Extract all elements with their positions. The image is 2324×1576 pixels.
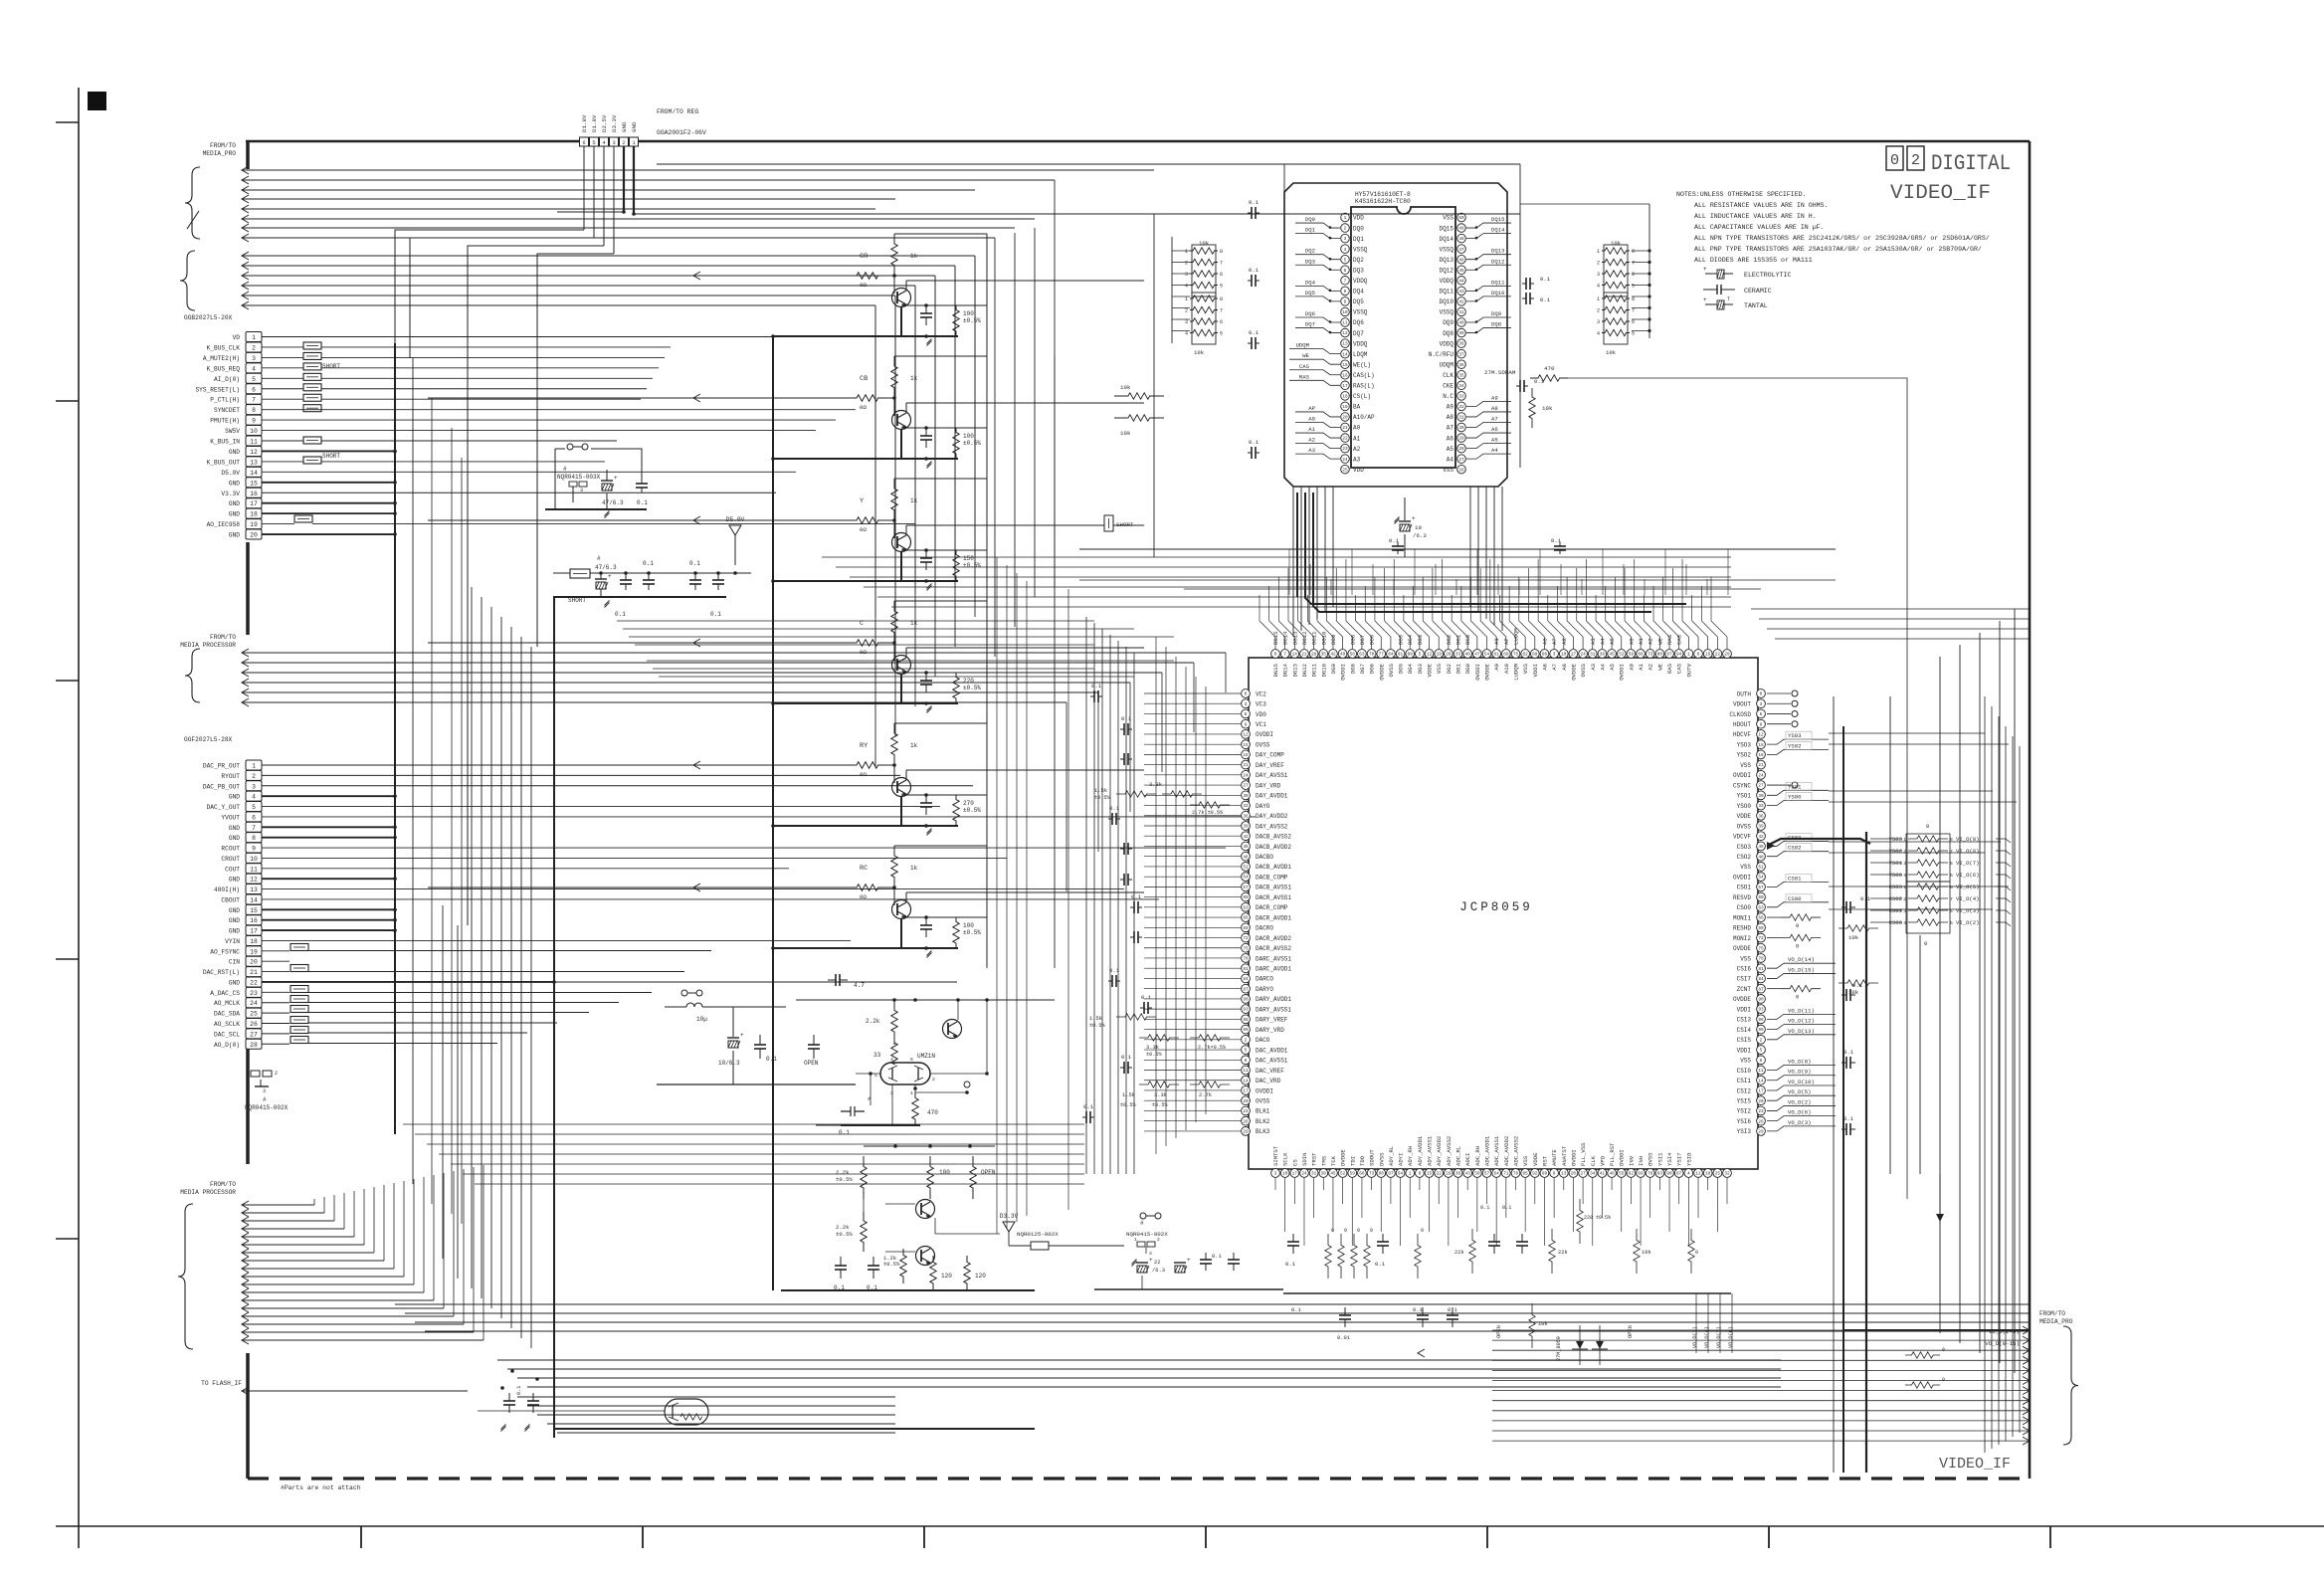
IC U-SDRAM pin 3 DQ1 bbox=[1341, 234, 1350, 243]
IC U1 left pin 40 OVDDI bbox=[1242, 1086, 1251, 1095]
svg-text:2.7k×0.5%: 2.7k×0.5% bbox=[1198, 1045, 1227, 1051]
svg-text:NOTES:UNLESS OTHERWISE SPECIFI: NOTES:UNLESS OTHERWISE SPECIFIED. bbox=[1676, 191, 1807, 198]
wire media_processor bot 10 bbox=[242, 1273, 249, 1280]
IC U1 top pin 17 bbox=[1425, 650, 1434, 659]
svg-text:6: 6 bbox=[1245, 712, 1248, 717]
svg-text:YS02: YS02 bbox=[1788, 742, 1801, 749]
U1 right no-connect stubs bbox=[1767, 692, 1791, 694]
svg-text:OVDDI: OVDDI bbox=[1340, 664, 1347, 681]
svg-text:8: 8 bbox=[1245, 1059, 1248, 1064]
svg-text:DARY_AVDD1: DARY_AVDD1 bbox=[1256, 996, 1291, 1003]
svg-text:DAC_Y_OUT: DAC_Y_OUT bbox=[207, 804, 241, 811]
wire bus verticals into u1 top bbox=[1288, 549, 1290, 595]
bottom ruler line bbox=[56, 1525, 2324, 1527]
svg-text:V3.3V: V3.3V bbox=[221, 491, 240, 497]
capacitor 0.1 a bbox=[625, 574, 627, 580]
svg-text:DG15: DG15 bbox=[1272, 664, 1279, 677]
IC U1 right pin 16 CSO3 bbox=[1757, 842, 1766, 851]
connector CN-A pin 10 SW5V bbox=[246, 426, 262, 436]
svg-text:120: 120 bbox=[941, 1273, 952, 1280]
svg-text:VO_D(13): VO_D(13) bbox=[1788, 1028, 1815, 1035]
svg-text:14: 14 bbox=[1342, 352, 1348, 357]
svg-text:MONI2: MONI2 bbox=[1733, 935, 1751, 942]
capacitor 0.1 u1left j bbox=[1140, 1007, 1144, 1009]
left ruler tick 1 bbox=[56, 121, 79, 123]
stage RC top rail wire bbox=[894, 845, 987, 847]
IC U1 bottom pin 41 bbox=[1655, 1169, 1664, 1178]
svg-text:ALL CAPACITANCE VALUES ARE IN: ALL CAPACITANCE VALUES ARE IN µF. bbox=[1694, 224, 1825, 231]
svg-text:DQ11: DQ11 bbox=[1440, 289, 1454, 295]
svg-text:8: 8 bbox=[1344, 290, 1347, 295]
connector CN-B pin 19 AO_FSYNC bbox=[246, 946, 262, 956]
wire Y emitter bbox=[900, 551, 902, 581]
svg-text:24: 24 bbox=[1301, 1172, 1307, 1177]
svg-text:6: 6 bbox=[1220, 319, 1223, 325]
svg-text:DQ7: DQ7 bbox=[1353, 330, 1364, 337]
svg-text:VDD: VDD bbox=[1353, 467, 1364, 474]
IC U1 left pin 42 BLK1 bbox=[1242, 1106, 1251, 1115]
svg-text:ADY_AVDD1: ADY_AVDD1 bbox=[1417, 1135, 1424, 1166]
wire media_processor bot 18 bbox=[242, 1336, 249, 1344]
svg-text:0.1: 0.1 bbox=[689, 560, 700, 567]
svg-text:22: 22 bbox=[1437, 1172, 1443, 1177]
svg-text:1.5k: 1.5k bbox=[1089, 1016, 1102, 1022]
svg-text:26: 26 bbox=[250, 1021, 258, 1028]
IC U1 right pin 34 CSI4 bbox=[1757, 1025, 1766, 1034]
svg-text:0.1: 0.1 bbox=[766, 1056, 777, 1063]
bottom ruler tick 4 bbox=[1205, 1526, 1207, 1548]
resistor 10k bottom2 bbox=[1529, 1303, 1535, 1348]
wire media_processor mid 2 bbox=[242, 659, 249, 667]
svg-text:COUT: COUT bbox=[225, 866, 240, 873]
svg-text:21: 21 bbox=[1243, 763, 1249, 768]
connector CN-B pin 26 AO_SCLK bbox=[246, 1019, 262, 1029]
svg-text:10k: 10k bbox=[1542, 405, 1553, 412]
svg-text:64: 64 bbox=[1494, 1172, 1500, 1177]
connector CN-B pin 1 DAC_PR_OUT bbox=[246, 760, 262, 770]
svg-text:CS01: CS01 bbox=[1788, 875, 1802, 882]
svg-text:BLK2: BLK2 bbox=[1256, 1118, 1270, 1125]
svg-text:97: 97 bbox=[1676, 1172, 1682, 1177]
svg-text:99: 99 bbox=[1542, 1172, 1548, 1177]
IC U1 right pin 41 YSIS bbox=[1757, 1096, 1766, 1105]
net label VO_D(11) bbox=[1767, 1014, 1836, 1019]
wire crystal ground rail bbox=[841, 1124, 920, 1126]
svg-text:75: 75 bbox=[1758, 946, 1764, 951]
svg-text:7: 7 bbox=[1220, 261, 1223, 267]
svg-text:GND: GND bbox=[229, 979, 240, 986]
IC U-SDRAM pin 40 DQ9 bbox=[1457, 318, 1466, 327]
svg-text:GND: GND bbox=[229, 532, 240, 539]
svg-text:DACRO: DACRO bbox=[1256, 925, 1273, 932]
page frame registration square bbox=[88, 92, 106, 110]
svg-text:DQ6: DQ6 bbox=[1305, 310, 1315, 317]
svg-text:14: 14 bbox=[250, 470, 258, 477]
svg-text:61: 61 bbox=[1494, 653, 1500, 658]
svg-text:84: 84 bbox=[1388, 653, 1394, 658]
svg-text:2: 2 bbox=[275, 1071, 278, 1077]
IC U1 right pin 22 CSO0 bbox=[1757, 902, 1766, 911]
capacitor 0.1 u1left d bbox=[1108, 818, 1112, 820]
IC U-SDRAM pin 49 DQ15 bbox=[1457, 224, 1466, 233]
svg-text:6: 6 bbox=[1344, 269, 1347, 274]
svg-text:DG10: DG10 bbox=[1320, 631, 1327, 645]
wire low cluster ground bbox=[781, 1289, 1035, 1291]
svg-text:DG13: DG13 bbox=[1291, 664, 1298, 677]
svg-text:80: 80 bbox=[1379, 1172, 1385, 1177]
svg-text:CERAMIC: CERAMIC bbox=[1744, 288, 1772, 295]
IC U1 bottom pin 23 bbox=[1482, 1169, 1491, 1178]
svg-text:94: 94 bbox=[1676, 653, 1682, 658]
IC U1 top pin 26 bbox=[1511, 650, 1520, 659]
net label DQ7 bbox=[1295, 328, 1340, 333]
svg-text:1: 1 bbox=[1344, 216, 1347, 221]
svg-text:3: 3 bbox=[1597, 319, 1600, 325]
svg-text:NQR0125-002X: NQR0125-002X bbox=[1017, 1231, 1059, 1238]
IC U1 right pin 23 MONI1 bbox=[1757, 913, 1766, 922]
svg-text:N.C/RFU: N.C/RFU bbox=[1429, 351, 1454, 358]
svg-text:19: 19 bbox=[250, 521, 258, 528]
transistor Q-low1 npn bbox=[916, 1200, 935, 1219]
capacitor 0.1 sdram right b bbox=[1522, 297, 1526, 299]
IC U1 bottom pin 20 bbox=[1453, 1169, 1462, 1178]
svg-text:31: 31 bbox=[1590, 653, 1596, 658]
IC U-SDRAM pin 5 DQ2 bbox=[1341, 255, 1350, 264]
svg-text:22: 22 bbox=[250, 979, 258, 986]
svg-text:MONI1: MONI1 bbox=[1733, 914, 1751, 921]
svg-text:YSI4: YSI4 bbox=[1666, 1152, 1673, 1166]
svg-text:DQ5: DQ5 bbox=[1305, 290, 1315, 296]
svg-text:±0.5%: ±0.5% bbox=[963, 685, 981, 691]
svg-text:21: 21 bbox=[1301, 653, 1307, 658]
svg-text:AO_IEC958: AO_IEC958 bbox=[207, 521, 241, 528]
svg-text:3.3k: 3.3k bbox=[1154, 1092, 1167, 1098]
IC U1 left pin 25 DACR_AVDD2 bbox=[1242, 933, 1251, 942]
IC U1 top pin 2 bbox=[1280, 650, 1289, 659]
svg-text:27: 27 bbox=[1458, 458, 1464, 463]
svg-text:0.1: 0.1 bbox=[615, 611, 626, 618]
svg-text:5: 5 bbox=[1632, 284, 1635, 290]
svg-text:0.1: 0.1 bbox=[1551, 537, 1562, 544]
svg-text:1k: 1k bbox=[910, 375, 918, 382]
svg-text:2.2k: 2.2k bbox=[866, 1018, 880, 1025]
svg-text:TDI: TDI bbox=[1349, 1156, 1356, 1166]
capacitor 0.1 sdram d bbox=[1248, 452, 1252, 454]
svg-text:12: 12 bbox=[1342, 331, 1348, 336]
svg-text:A0: A0 bbox=[1308, 416, 1315, 423]
svg-text:3: 3 bbox=[580, 488, 583, 493]
svg-text:8: 8 bbox=[1632, 249, 1635, 255]
IC U1 right pin 4 HDOUT bbox=[1757, 719, 1766, 728]
wire media_pro a4 bbox=[242, 195, 249, 203]
svg-text:OVDDE: OVDDE bbox=[1733, 945, 1751, 952]
net label VO_D(15) bbox=[1767, 973, 1836, 978]
svg-text:2: 2 bbox=[1760, 1038, 1763, 1043]
svg-text:52: 52 bbox=[1340, 1172, 1346, 1177]
svg-text:CSO0: CSO0 bbox=[1737, 904, 1752, 911]
IC U1 left pin 14 DAY_AVSS2 bbox=[1242, 822, 1251, 831]
svg-text:17: 17 bbox=[1292, 1172, 1298, 1177]
svg-text:2: 2 bbox=[1903, 849, 1906, 855]
svg-text:55: 55 bbox=[1619, 1172, 1625, 1177]
svg-text:DAY_VRD: DAY_VRD bbox=[1256, 782, 1281, 789]
svg-text:RESHD: RESHD bbox=[1733, 925, 1751, 932]
svg-text:FROM/TO: FROM/TO bbox=[210, 142, 236, 149]
svg-text:92: 92 bbox=[1532, 1172, 1538, 1177]
resistor CR 0ohm bbox=[841, 273, 894, 279]
IC U1 left pin 34 DARY_VRD bbox=[1242, 1025, 1251, 1034]
svg-text:10: 10 bbox=[1282, 1172, 1288, 1177]
svg-text:YSO2: YSO2 bbox=[1737, 752, 1752, 759]
IC U-SDRAM pin 24 A3 bbox=[1341, 455, 1350, 464]
net label CS00 bbox=[1767, 902, 1829, 907]
svg-text:6: 6 bbox=[910, 1057, 913, 1063]
svg-text:TRST: TRST bbox=[1311, 1152, 1318, 1166]
svg-text:VSS: VSS bbox=[1443, 215, 1453, 222]
resistor OPEN lower bbox=[970, 1156, 976, 1199]
svg-text:11: 11 bbox=[250, 439, 258, 446]
svg-text:VO_D(0): VO_D(0) bbox=[1728, 1326, 1734, 1348]
IC U1 bottom pin 43 bbox=[1674, 1169, 1683, 1178]
svg-text:INH: INH bbox=[1638, 1156, 1645, 1166]
capacitor 0.1 sdram right a bbox=[1522, 283, 1526, 285]
svg-text:TO FLASH_IF: TO FLASH_IF bbox=[201, 1380, 242, 1387]
net label CS02 bbox=[1767, 852, 1829, 857]
svg-text:5: 5 bbox=[1220, 331, 1223, 337]
IC U1 left pin 23 DACR_AVDD1 bbox=[1242, 913, 1251, 922]
svg-text:VO_D(1): VO_D(1) bbox=[1692, 1326, 1698, 1348]
svg-text:20: 20 bbox=[250, 959, 258, 966]
svg-text:DQ15: DQ15 bbox=[1440, 225, 1454, 232]
IC U1 right pin 27 VSS bbox=[1757, 954, 1766, 963]
svg-text:17: 17 bbox=[1758, 1089, 1764, 1094]
IC U1 right pin 43 YSI6 bbox=[1757, 1116, 1766, 1125]
svg-text:6: 6 bbox=[1632, 319, 1635, 325]
capacitor 0.1 u1left a bbox=[1090, 695, 1094, 697]
svg-text:47: 47 bbox=[1458, 248, 1464, 253]
svg-text:10: 10 bbox=[1342, 310, 1348, 315]
U-SDRAM address stubs right bbox=[1466, 401, 1511, 406]
svg-text:CS02: CS02 bbox=[1788, 845, 1801, 852]
capacitor Y bbox=[925, 550, 927, 558]
svg-text:57: 57 bbox=[1758, 886, 1764, 890]
svg-text:1: 1 bbox=[247, 1071, 250, 1077]
svg-text:35: 35 bbox=[1458, 373, 1464, 378]
IC U-SDRAM pin 29 A6 bbox=[1457, 434, 1466, 443]
svg-text:DACB_AVDD1: DACB_AVDD1 bbox=[1256, 864, 1291, 871]
svg-text:AO_D(0): AO_D(0) bbox=[214, 1042, 240, 1049]
svg-text:7: 7 bbox=[1950, 896, 1953, 902]
svg-text:OVDDE: OVDDE bbox=[1570, 663, 1577, 680]
connector CN-B pin 16 GND bbox=[246, 915, 262, 925]
svg-text:36: 36 bbox=[1458, 363, 1464, 368]
svg-text:24: 24 bbox=[1758, 773, 1764, 778]
svg-text:A1: A1 bbox=[1638, 638, 1645, 645]
jumper NQR0415-003X bbox=[567, 444, 573, 450]
IC U-SDRAM body bbox=[1351, 207, 1455, 468]
svg-text:1: 1 bbox=[1409, 1172, 1412, 1177]
svg-text:1k: 1k bbox=[910, 865, 918, 872]
svg-text:D3.3V: D3.3V bbox=[611, 114, 618, 132]
svg-text:23: 23 bbox=[250, 990, 258, 997]
svg-text:/6.3: /6.3 bbox=[1413, 532, 1427, 539]
svg-text:CSI0: CSI0 bbox=[1737, 1068, 1752, 1075]
resistor 1.2k low bbox=[900, 1249, 906, 1283]
svg-text:A0: A0 bbox=[1353, 425, 1361, 432]
svg-text:DQ4: DQ4 bbox=[1305, 279, 1316, 286]
svg-text:78: 78 bbox=[1243, 957, 1249, 962]
IC U1 bottom pin 48 bbox=[1723, 1169, 1732, 1178]
svg-text:RAS: RAS bbox=[1666, 663, 1673, 674]
svg-text:21: 21 bbox=[1342, 426, 1348, 431]
svg-text:77: 77 bbox=[1379, 653, 1385, 658]
resistor 0 br b bbox=[1905, 1382, 1940, 1388]
IC U1 right pin 21 RESVD bbox=[1757, 892, 1766, 901]
svg-text:A8: A8 bbox=[1561, 638, 1568, 645]
IC U1 right pin 33 CSI3 bbox=[1757, 1015, 1766, 1024]
IC U1 bottom pin 14 bbox=[1396, 1169, 1405, 1178]
IC U1 left pin 30 DARYO bbox=[1242, 984, 1251, 993]
connector CN-A pin 11 K_BUS_IN bbox=[246, 436, 262, 446]
svg-text:OVSS: OVSS bbox=[1737, 823, 1752, 830]
svg-text:39: 39 bbox=[1758, 825, 1764, 830]
capacitor electrolytic 47/6.3 cluster1 bbox=[602, 484, 612, 491]
svg-text:A4: A4 bbox=[1599, 638, 1606, 645]
svg-text:FROM/TO: FROM/TO bbox=[2039, 1310, 2065, 1317]
svg-text:N.C: N.C bbox=[1443, 393, 1453, 400]
IC U1 bottom pin 12 bbox=[1377, 1169, 1386, 1178]
svg-text:SIMTST: SIMTST bbox=[1272, 1145, 1279, 1166]
svg-text:A8: A8 bbox=[1561, 664, 1568, 671]
svg-text:5: 5 bbox=[1632, 331, 1635, 337]
svg-text:0Ω: 0Ω bbox=[860, 282, 867, 289]
svg-text:YSIS: YSIS bbox=[1737, 1098, 1752, 1105]
svg-text:10: 10 bbox=[250, 428, 258, 435]
IC U1 bottom pin 1 bbox=[1271, 1169, 1280, 1178]
IC U-SDRAM pin 26 VSS bbox=[1457, 465, 1466, 474]
svg-text:D3.3V: D3.3V bbox=[1000, 1213, 1019, 1220]
svg-text:ADYI: ADYI bbox=[1398, 1153, 1405, 1166]
transistor Q-low2 npn bbox=[916, 1247, 935, 1266]
svg-text:2: 2 bbox=[1597, 308, 1600, 314]
svg-text:99: 99 bbox=[1758, 1028, 1764, 1033]
svg-text:78: 78 bbox=[1513, 1172, 1519, 1177]
wire bottom rail bbox=[1283, 1292, 1731, 1294]
svg-text:9: 9 bbox=[1760, 722, 1763, 727]
svg-text:4: 4 bbox=[1185, 284, 1188, 290]
svg-text:AO_MCLK: AO_MCLK bbox=[214, 1000, 240, 1007]
svg-text:A_DAC_CS: A_DAC_CS bbox=[210, 990, 240, 997]
svg-text:21: 21 bbox=[250, 969, 258, 976]
IC U-SDRAM pin 42 DQ10 bbox=[1457, 297, 1466, 306]
IC U1 top pin 48 bbox=[1723, 650, 1732, 659]
svg-text:20: 20 bbox=[1243, 1099, 1249, 1104]
open circle stub crystal bbox=[964, 1082, 970, 1087]
capacitor 0.1 sdram a bbox=[1248, 212, 1252, 214]
svg-text:18: 18 bbox=[250, 938, 258, 945]
IC U-SDRAM pin 38 VDDQ bbox=[1457, 339, 1466, 348]
svg-text:0.1: 0.1 bbox=[1540, 296, 1551, 303]
svg-text:DQ12: DQ12 bbox=[1440, 267, 1454, 274]
svg-text:CKE: CKE bbox=[1443, 383, 1453, 390]
svg-text:DQ9: DQ9 bbox=[1443, 319, 1453, 326]
svg-text:VSSQ: VSSQ bbox=[1353, 309, 1368, 316]
svg-text:OVDDI: OVDDI bbox=[1733, 874, 1751, 881]
svg-text:DQ8: DQ8 bbox=[1491, 321, 1501, 328]
wire media_pro b5 bbox=[242, 292, 249, 299]
svg-text:A7: A7 bbox=[1551, 638, 1558, 645]
svg-text:RAS: RAS bbox=[1299, 373, 1310, 380]
svg-text:0.1: 0.1 bbox=[1285, 1261, 1296, 1268]
svg-text:8: 8 bbox=[252, 407, 256, 414]
svg-text:A3: A3 bbox=[1590, 664, 1597, 671]
svg-text:K4S161622H-TC80: K4S161622H-TC80 bbox=[1355, 198, 1411, 205]
wire horizontals mid row feeding U1-left bbox=[617, 620, 1094, 622]
svg-text:0: 0 bbox=[1357, 1228, 1360, 1234]
svg-text:52: 52 bbox=[1619, 653, 1625, 658]
svg-text:DAC_PB_OUT: DAC_PB_OUT bbox=[203, 783, 240, 790]
svg-text:DG5: DG5 bbox=[1398, 664, 1405, 674]
svg-text:59: 59 bbox=[1629, 653, 1635, 658]
svg-text:1.5k: 1.5k bbox=[1122, 1092, 1135, 1098]
IC U-SDRAM pin 28 A5 bbox=[1457, 444, 1466, 453]
svg-text:ADY_RL: ADY_RL bbox=[1388, 1146, 1395, 1166]
svg-text:VDDQ: VDDQ bbox=[1440, 278, 1454, 285]
svg-text:15: 15 bbox=[1427, 1172, 1433, 1177]
svg-text:CSI4: CSI4 bbox=[1737, 1027, 1752, 1034]
net label DQ1 bbox=[1295, 234, 1340, 239]
IC U1 top pin 9 bbox=[1348, 650, 1357, 659]
IC U1 bottom pin 6 bbox=[1319, 1169, 1328, 1178]
svg-text:VSS: VSS bbox=[1522, 663, 1529, 674]
svg-text:96: 96 bbox=[1243, 1018, 1249, 1023]
svg-text:CAS(L): CAS(L) bbox=[1353, 372, 1375, 379]
connector CN-B pin 10 CROUT bbox=[246, 853, 262, 863]
svg-text:3: 3 bbox=[612, 139, 615, 146]
IC U1 bottom pin 29 bbox=[1540, 1169, 1549, 1178]
svg-text:14: 14 bbox=[1758, 1079, 1764, 1083]
svg-text:VO_D(3): VO_D(3) bbox=[1788, 1119, 1812, 1126]
svg-text:2: 2 bbox=[252, 773, 256, 780]
svg-text:+: + bbox=[1187, 1257, 1191, 1264]
IC U1 top pin 45 bbox=[1694, 650, 1703, 659]
svg-text:DARC_AVDD1: DARC_AVDD1 bbox=[1256, 966, 1291, 973]
wire thick net vdcvf bbox=[1767, 839, 1870, 846]
svg-text:VI_O(5): VI_O(5) bbox=[1956, 884, 1980, 890]
net label DQ0 bbox=[1295, 223, 1340, 228]
svg-text:NQR0415-002X: NQR0415-002X bbox=[245, 1104, 289, 1111]
svg-text:51: 51 bbox=[1243, 866, 1249, 871]
svg-text:26: 26 bbox=[1446, 653, 1452, 658]
svg-text:VO_D(5): VO_D(5) bbox=[1788, 1088, 1812, 1095]
svg-text:11: 11 bbox=[250, 866, 258, 873]
svg-text:±0.5%: ±0.5% bbox=[1089, 1023, 1105, 1029]
wire GND run right long bbox=[634, 213, 1154, 215]
svg-text:30: 30 bbox=[1458, 426, 1464, 431]
svg-text:+: + bbox=[608, 573, 612, 580]
svg-text:SYNCDET: SYNCDET bbox=[214, 407, 240, 414]
svg-text:81: 81 bbox=[1243, 967, 1249, 972]
svg-text:480I(H): 480I(H) bbox=[214, 886, 240, 893]
wire Y ground rail bbox=[773, 580, 958, 582]
svg-text:VO_D(4): VO_D(4) bbox=[1704, 1326, 1710, 1348]
resistor u1left 4 bbox=[1190, 1082, 1230, 1087]
svg-text:DACR_COMP: DACR_COMP bbox=[1256, 904, 1288, 911]
svg-text:A9: A9 bbox=[1493, 664, 1500, 671]
resistor CR 1k bbox=[891, 234, 897, 276]
svg-text:4: 4 bbox=[1903, 920, 1906, 926]
svg-text:RST: RST bbox=[1541, 1155, 1548, 1166]
